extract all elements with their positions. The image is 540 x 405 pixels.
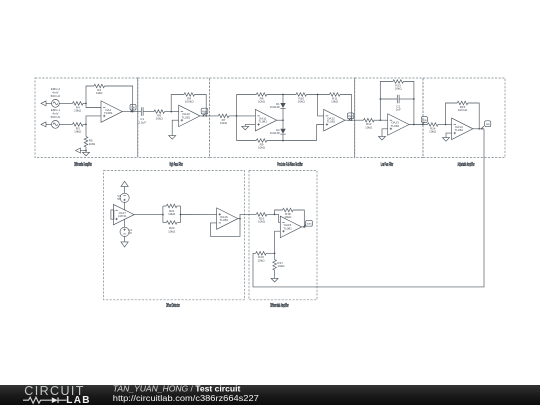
footer bar xyxy=(0,385,540,405)
svg-text:10kΩ: 10kΩ xyxy=(429,130,437,134)
svg-text:TL081: TL081 xyxy=(182,115,191,119)
svg-text:100kΩ: 100kΩ xyxy=(185,100,195,104)
wire xyxy=(307,94,330,96)
wire R11 to output xyxy=(340,95,352,121)
svg-text:10kΩ: 10kΩ xyxy=(168,229,176,233)
footer url line xyxy=(113,393,259,403)
wire OA11 output xyxy=(277,119,283,121)
svg-text:LAB: LAB xyxy=(66,395,90,405)
svg-text:TL081: TL081 xyxy=(104,111,113,115)
wire xyxy=(83,103,101,108)
svg-text:TL081: TL081 xyxy=(455,128,464,132)
wire xyxy=(124,202,126,210)
resistor R10 xyxy=(296,93,307,104)
wire xyxy=(374,119,388,121)
wire output xyxy=(473,128,484,130)
svg-text:10kΩ: 10kΩ xyxy=(220,121,228,125)
source V4 xyxy=(120,227,132,236)
wire top branch xyxy=(237,94,257,96)
wire Adj long run to bottom diff amp xyxy=(253,129,484,287)
node Adj tag xyxy=(481,121,491,130)
svg-text:10kΩ: 10kΩ xyxy=(365,125,373,129)
svg-text:10kΩ: 10kΩ xyxy=(298,100,306,104)
svg-text:High Pass Filter: High Pass Filter xyxy=(169,162,183,168)
wire xyxy=(83,124,87,126)
svg-text:1N4148: 1N4148 xyxy=(270,105,280,109)
VCC arrow xyxy=(121,181,128,193)
node Low tag xyxy=(421,117,427,126)
node Diff tag xyxy=(130,104,136,112)
wire xyxy=(438,124,452,126)
resistor R8 (HPF feedback) xyxy=(184,93,195,104)
wire OA17 output xyxy=(134,214,164,216)
svg-text:10kΩ: 10kΩ xyxy=(258,220,266,224)
solid separator box3/box4 xyxy=(354,78,356,158)
wire xyxy=(59,123,72,125)
wire feedback to R18 xyxy=(275,210,305,227)
svg-text:10kΩ: 10kΩ xyxy=(156,117,164,121)
svg-text:Adjustable Amplifier: Adjustable Amplifier xyxy=(458,162,475,168)
port P3 xyxy=(76,148,87,153)
wire feedback right leg xyxy=(403,82,414,125)
op-amp OA16 buffer xyxy=(217,208,238,230)
wire buffer feedback xyxy=(210,219,240,237)
ground xyxy=(443,136,450,141)
svg-text:Rect: Rect xyxy=(348,115,353,118)
wire feedback to R2 xyxy=(86,86,133,112)
section box: Precision Full-Wave Rectifier xyxy=(210,78,355,168)
op-amp OA14 xyxy=(452,118,473,140)
wire xyxy=(59,102,72,104)
CircuitLab logo resistor-diode glyph xyxy=(23,397,67,403)
resistor R3 xyxy=(73,123,84,134)
section box: Offset Detector xyxy=(104,171,245,309)
port P1 xyxy=(41,101,52,106)
svg-text:TL081: TL081 xyxy=(391,124,400,128)
ground xyxy=(379,135,386,140)
source V3 xyxy=(117,193,129,202)
wire feedback xyxy=(446,103,480,129)
svg-text:Low: Low xyxy=(422,119,427,122)
resistor R19 xyxy=(256,252,275,263)
resistor R4 xyxy=(73,102,84,113)
svg-text:Differential Amplifier: Differential Amplifier xyxy=(74,162,92,168)
wire OA12 output xyxy=(345,119,364,121)
CircuitLab logo text CIRCUIT xyxy=(24,384,85,398)
section box: Low Pass Filter xyxy=(355,78,423,168)
svg-text:Vout: Vout xyxy=(307,223,312,226)
svg-text:10kΩ: 10kΩ xyxy=(258,100,266,104)
wire feedback xyxy=(171,95,206,116)
resistor R20 (parallel bottom) xyxy=(163,221,181,234)
svg-text:10kΩ: 10kΩ xyxy=(168,212,176,216)
port P2 xyxy=(41,122,52,127)
wire OA11 + to ground xyxy=(245,124,255,126)
wire OA15 + input xyxy=(274,231,281,254)
svg-text:1uF: 1uF xyxy=(396,108,401,112)
op-amp OA1 xyxy=(101,101,122,123)
diode D2 xyxy=(270,120,286,135)
svg-text:10kΩ: 10kΩ xyxy=(74,130,82,134)
footer title line xyxy=(113,383,241,393)
svg-text:Precision Full-Wave Rectifier: Precision Full-Wave Rectifier xyxy=(277,162,303,168)
resistor R21 (parallel top) xyxy=(163,204,181,222)
resistor R2 xyxy=(94,84,105,95)
CircuitLab logo text LAB xyxy=(66,395,90,405)
wire bottom branch xyxy=(237,140,317,142)
op-amp OA12 xyxy=(324,109,345,131)
wire xyxy=(267,94,296,96)
svg-text:5V: 5V xyxy=(117,197,121,201)
svg-text:TL081: TL081 xyxy=(220,218,229,222)
wire xyxy=(165,111,179,113)
op-amp OA15 xyxy=(280,216,301,238)
node High tag xyxy=(201,108,208,116)
svg-text:10kΩ: 10kΩ xyxy=(258,146,266,150)
wire OA12 + input xyxy=(317,125,324,141)
source EMG2 V1 xyxy=(51,87,61,107)
wire feedback left leg xyxy=(379,82,392,121)
resistor R11 xyxy=(330,93,341,104)
section box: Adjustable Amplifier xyxy=(423,78,505,168)
svg-text:500 Hz: 500 Hz xyxy=(51,115,61,119)
svg-text:500 Hz: 500 Hz xyxy=(51,94,61,98)
wire output xyxy=(122,111,141,113)
op-amp OA10 xyxy=(179,105,200,127)
svg-text:2.2uF: 2.2uF xyxy=(138,120,146,124)
svg-text:Offset Detector: Offset Detector xyxy=(166,303,180,309)
section box: Differential Amplifier (bottom) xyxy=(249,171,317,309)
resistor R18 xyxy=(283,208,294,219)
svg-text:10kΩ: 10kΩ xyxy=(331,100,339,104)
ground xyxy=(83,151,90,156)
wire output with jog xyxy=(238,214,256,219)
wire xyxy=(267,214,281,223)
svg-text:10kΩ: 10kΩ xyxy=(395,87,403,91)
resistor R17 xyxy=(273,253,285,276)
section box: Differential Amplifier (top) xyxy=(35,78,138,168)
node Rect tag xyxy=(347,113,353,121)
resistor R8 (rect) xyxy=(256,93,267,104)
resistor R16 xyxy=(256,213,267,224)
resistor R9 xyxy=(256,139,267,150)
wire input tee xyxy=(229,95,256,141)
svg-text:100 kΩ: 100 kΩ xyxy=(458,108,468,112)
svg-text:1MΩ: 1MΩ xyxy=(89,142,96,146)
section box: High Pass Filter xyxy=(138,78,210,168)
resistor R15 xyxy=(457,101,468,112)
svg-text:Diff: Diff xyxy=(131,107,135,110)
capacitor C2 xyxy=(380,95,414,112)
svg-text:TAN_YUAN_HONG / Test circuit: TAN_YUAN_HONG / Test circuit xyxy=(113,383,241,393)
resistor R6 xyxy=(154,110,165,121)
wire to OA12 - input xyxy=(318,95,324,116)
resistor R14 xyxy=(428,123,439,134)
resistor R7 xyxy=(218,114,229,125)
wire OA15 output xyxy=(302,226,306,228)
svg-text:TL081: TL081 xyxy=(327,120,336,124)
wire xyxy=(124,219,126,227)
op-amp OA13 xyxy=(388,114,409,136)
svg-text:Low Pass Filter: Low Pass Filter xyxy=(381,162,394,168)
wire OA14 + to ground xyxy=(446,133,452,136)
svg-text:TL081: TL081 xyxy=(258,120,267,124)
op-amp OA11 xyxy=(255,109,276,131)
svg-text:TL081: TL081 xyxy=(283,226,292,230)
svg-text:10kΩ: 10kΩ xyxy=(74,109,82,113)
diode D1 xyxy=(270,95,286,110)
ground xyxy=(169,134,176,139)
wire output xyxy=(409,124,428,126)
svg-text:10kΩ: 10kΩ xyxy=(277,264,285,268)
VEE arrow xyxy=(121,236,128,247)
op-amp OA17 comparator xyxy=(111,204,134,224)
source EMG1 V2 xyxy=(51,108,61,128)
svg-text:http://circuitlab.com/c386rz66: http://circuitlab.com/c386rz664s227 xyxy=(113,393,259,403)
resistor R13 xyxy=(393,80,404,91)
wire xyxy=(282,109,284,121)
resistor R5 xyxy=(84,124,96,150)
node Vout tag xyxy=(303,220,312,227)
wire + input to ground xyxy=(172,120,179,134)
svg-text:1MΩ: 1MΩ xyxy=(96,91,103,95)
ground xyxy=(242,125,249,130)
svg-text:10kΩ: 10kΩ xyxy=(257,258,265,262)
wire xyxy=(180,214,217,216)
svg-text:High: High xyxy=(202,110,208,113)
svg-text:5V: 5V xyxy=(128,231,132,235)
wire OA13 + to ground xyxy=(382,129,388,135)
wire output xyxy=(200,115,218,117)
svg-text:Differential Amplifier: Differential Amplifier xyxy=(270,303,289,309)
wire xyxy=(282,135,284,142)
capacitor C1 xyxy=(138,107,154,124)
svg-text:1N4148: 1N4148 xyxy=(270,131,280,135)
resistor R12 xyxy=(364,118,375,129)
ground xyxy=(271,277,278,282)
solid separator box1/box2 xyxy=(137,78,139,158)
wire to + input xyxy=(86,116,101,125)
svg-text:LM741: LM741 xyxy=(118,214,127,218)
svg-text:Adj: Adj xyxy=(486,123,490,126)
